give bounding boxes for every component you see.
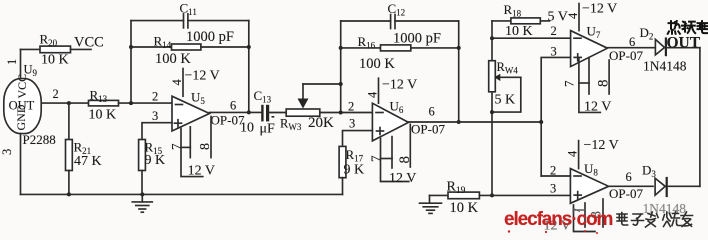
- node junction R21 top: [67, 101, 71, 105]
- op-amp U7: [571, 31, 608, 67]
- svg-text:20K: 20K: [308, 115, 334, 131]
- svg-text:8: 8: [198, 143, 213, 150]
- svg-text:6: 6: [429, 105, 435, 119]
- svg-text:−12 V: −12 V: [185, 69, 220, 84]
- potentiometer RW4: [489, 61, 496, 92]
- svg-text:OP-07: OP-07: [411, 122, 445, 137]
- U5 pin7 stub: [189, 127, 191, 158]
- resistor R18: [511, 18, 540, 24]
- sensor U9 P2288 body: [4, 79, 41, 134]
- node junction R18 tap: [490, 36, 494, 40]
- svg-text:3: 3: [0, 149, 14, 155]
- svg-text:12 V: 12 V: [584, 100, 611, 115]
- wire pin1 to R20: [21, 48, 41, 50]
- potentiometer RW4 wiper arrow: [494, 74, 521, 81]
- wire U5 feedback right vertical: [248, 21, 250, 113]
- node junction U6 fb left bottom: [339, 111, 343, 115]
- svg-text:10 K: 10 K: [450, 200, 479, 216]
- wire R14 left: [131, 46, 172, 48]
- U6 supply bracket 12V: [381, 139, 409, 182]
- wire R20 to VCC: [71, 48, 92, 50]
- svg-text:−12 V: −12 V: [382, 78, 417, 93]
- diode D2: [655, 37, 667, 56]
- svg-text:7: 7: [169, 143, 184, 150]
- wire R16 right: [411, 47, 459, 49]
- svg-text:C12: C12: [388, 1, 406, 18]
- wire R13 to U5 pin2: [119, 102, 173, 104]
- op-amp U7 minus mark: [574, 37, 581, 39]
- svg-text:2: 2: [53, 87, 59, 101]
- svg-text:1N4148: 1N4148: [643, 59, 687, 74]
- ground symbol left: [132, 194, 152, 212]
- svg-text:R17: R17: [346, 147, 364, 164]
- svg-text:μF: μF: [260, 122, 276, 137]
- svg-text:R14: R14: [154, 33, 172, 50]
- U6 pin8 stub: [409, 124, 411, 167]
- U7 supply bracket 12V: [579, 59, 600, 113]
- node junction R19 tap: [490, 193, 494, 197]
- svg-text:U9: U9: [24, 63, 38, 79]
- svg-text:1000 pF: 1000 pF: [186, 29, 234, 45]
- resistor R21: [68, 103, 70, 139]
- U5 pin8 stub: [210, 117, 212, 158]
- svg-text:8: 8: [397, 156, 413, 164]
- svg-text:3: 3: [550, 181, 556, 195]
- potentiometer RW3: [286, 109, 320, 116]
- wire RW3 wiper to feedback: [303, 83, 341, 85]
- wire divider vertical lower: [491, 92, 493, 196]
- svg-text:R16: R16: [358, 34, 376, 51]
- wire sensor pin3 down: [20, 134, 22, 195]
- wire U6 feedback top left: [341, 20, 391, 22]
- resistor R16: [381, 45, 411, 51]
- ground symbol right: [420, 195, 442, 213]
- svg-text:5 K: 5 K: [495, 93, 516, 108]
- svg-text:R19: R19: [447, 180, 466, 197]
- resistor R19: [448, 192, 479, 199]
- svg-text:9 K: 9 K: [344, 163, 365, 178]
- svg-text:U6: U6: [390, 99, 404, 116]
- wire ground to R19: [430, 194, 449, 196]
- svg-text:OUT: OUT: [667, 35, 701, 52]
- svg-text:OP-07: OP-07: [609, 186, 643, 201]
- svg-text:2: 2: [550, 163, 556, 177]
- op-amp U6 minus mark: [376, 112, 383, 114]
- U6 pin4 lead: [378, 78, 380, 103]
- wire U6 feedback left vertical: [340, 21, 342, 113]
- resistor R13: [89, 100, 119, 106]
- svg-text:1: 1: [5, 59, 19, 65]
- capacitor C12: [391, 15, 395, 29]
- svg-text:10 K: 10 K: [505, 24, 533, 39]
- svg-text:12 V: 12 V: [188, 163, 215, 178]
- op-amp U5 plus mark: [175, 120, 182, 127]
- node junction U6 fb right output: [457, 120, 461, 124]
- wire U5 pin3: [142, 123, 172, 140]
- svg-text:P2288: P2288: [23, 132, 56, 147]
- svg-text:R18: R18: [504, 2, 522, 19]
- wire U8 output: [609, 185, 653, 187]
- wire U6 pin3 to R17: [343, 131, 373, 147]
- svg-text:4: 4: [170, 79, 184, 86]
- wire U7 pin2: [492, 37, 571, 39]
- svg-text:4: 4: [566, 150, 580, 157]
- svg-text:6: 6: [626, 170, 632, 184]
- wire ground rail: [21, 193, 343, 195]
- op-amp U8 plus mark: [574, 192, 581, 199]
- U7 pin7 stub: [588, 58, 590, 94]
- wire pin1 vertical: [20, 49, 22, 78]
- wire R14 right: [201, 46, 249, 48]
- node junction U6 out to comparators: [539, 120, 543, 124]
- svg-text:U7: U7: [587, 24, 601, 41]
- wire U5 feedback left vertical: [130, 21, 132, 104]
- node junction feedback right R14: [247, 45, 251, 49]
- U8 pin8 stub: [602, 199, 604, 227]
- svg-text:−12 V: −12 V: [584, 138, 619, 153]
- U6 pin7 stub: [391, 137, 393, 168]
- wire R16 left: [341, 47, 381, 49]
- wire D2 to OUT: [667, 47, 700, 49]
- svg-text:U5: U5: [191, 90, 205, 107]
- svg-text:D2: D2: [640, 25, 654, 42]
- node junction R21 bottom: [67, 192, 71, 196]
- wire RW4 wiper loop: [492, 77, 521, 112]
- node junction U6 fb left R16: [339, 46, 343, 50]
- wire U7 output: [607, 47, 655, 49]
- U5 pin4 lead: [182, 69, 184, 97]
- resistor R20: [40, 46, 71, 53]
- op-amp U8 minus mark: [574, 175, 581, 177]
- svg-text:3: 3: [152, 109, 158, 123]
- svg-text:VCC: VCC: [74, 35, 104, 51]
- svg-text:2: 2: [152, 89, 158, 103]
- svg-text:OP-07: OP-07: [609, 48, 643, 63]
- wire R18 right to 5V: [540, 20, 549, 22]
- wire U5 output: [210, 111, 263, 113]
- wire U6 feedback right vertical: [458, 21, 460, 122]
- svg-text:9 K: 9 K: [145, 153, 166, 168]
- wire sensor pin2: [42, 102, 89, 104]
- wire D3 to OUT: [668, 185, 700, 187]
- op-amp U6 plus mark: [377, 128, 384, 135]
- U8 pin4 lead: [578, 141, 580, 169]
- node junction wiper tap: [339, 82, 343, 86]
- wire U6 output: [409, 121, 542, 123]
- U7 pin8 stub: [608, 60, 610, 94]
- svg-text:6: 6: [230, 99, 236, 113]
- svg-text:3: 3: [551, 44, 557, 58]
- node junction feedback left top R14: [129, 45, 133, 49]
- U5 supply bracket 12V: [181, 129, 203, 177]
- watermark CJK elecfans (hand-drawn strokes): [617, 212, 693, 227]
- wire U5 feedback top right: [188, 20, 249, 22]
- svg-text:C13: C13: [254, 88, 272, 105]
- svg-text:5 V: 5 V: [548, 10, 568, 25]
- potentiometer RW3 wiper arrow: [298, 84, 309, 109]
- capacitor C11: [184, 14, 188, 28]
- svg-text:D3: D3: [642, 162, 656, 179]
- node junction feedback left bottom: [129, 101, 133, 105]
- wire RW3 to U6 pin2: [320, 112, 373, 114]
- wire U5 feedback top left: [131, 20, 184, 22]
- wire U7 pin3: [541, 57, 570, 176]
- svg-text:4: 4: [366, 91, 380, 98]
- node junction feedback right output: [247, 110, 251, 114]
- svg-text:100 K: 100 K: [359, 56, 395, 72]
- wire R18 left: [492, 20, 511, 22]
- op-amp U5: [172, 96, 210, 131]
- U8 pin7 stub: [584, 203, 586, 227]
- diode D3: [655, 177, 668, 197]
- node junction wiper RW4: [490, 110, 494, 114]
- node junction rail ground: [140, 192, 144, 196]
- resistor R14: [172, 44, 201, 50]
- svg-text:8: 8: [596, 80, 612, 88]
- svg-text:C11: C11: [180, 1, 197, 18]
- op-amp U5 minus mark: [176, 104, 183, 106]
- svg-text:12 V: 12 V: [389, 171, 416, 186]
- svg-text:100 K: 100 K: [155, 51, 191, 67]
- svg-text:GND: GND: [14, 104, 28, 130]
- svg-text:2: 2: [348, 100, 354, 114]
- svg-text:7: 7: [562, 80, 577, 87]
- wire C13 to RW3: [269, 112, 287, 114]
- svg-text:RW4: RW4: [497, 60, 519, 76]
- svg-text:−12 V: −12 V: [582, 2, 617, 17]
- svg-text:47 K: 47 K: [74, 154, 102, 169]
- svg-text:10: 10: [240, 121, 254, 136]
- wire output right vertical: [699, 48, 701, 187]
- svg-text:R20: R20: [40, 32, 58, 49]
- op-amp U6: [372, 103, 408, 141]
- op-amp U7 plus mark: [574, 54, 581, 61]
- svg-text:10 K: 10 K: [41, 53, 69, 68]
- wire U6 feedback top right: [395, 20, 459, 22]
- wire divider vertical upper: [491, 21, 493, 61]
- op-amp U8: [570, 169, 608, 204]
- resistor R15: [139, 140, 146, 171]
- svg-text:3: 3: [349, 116, 355, 130]
- U8 supply bracket 12V: [574, 205, 596, 232]
- svg-text:U8: U8: [584, 161, 598, 178]
- node junction U6 fb right R16: [457, 46, 461, 50]
- svg-text:RW3: RW3: [280, 117, 302, 133]
- svg-text:VCC: VCC: [15, 74, 29, 99]
- wire R19 to U8 pin3: [479, 194, 570, 196]
- svg-text:10 K: 10 K: [89, 107, 117, 122]
- watermark drip marks: [508, 230, 598, 234]
- svg-text:elecfans·com: elecfans·com: [504, 209, 612, 230]
- svg-text:R13: R13: [90, 87, 108, 104]
- wire U8 pin2: [541, 175, 570, 177]
- label pyroelectric CJK (hand-drawn strokes): [668, 21, 708, 34]
- svg-text:2: 2: [551, 24, 557, 38]
- svg-text:4: 4: [566, 12, 580, 19]
- resistor R17: [339, 146, 346, 177]
- capacitor C13: [261, 105, 274, 122]
- U7 pin4 lead: [578, 4, 580, 31]
